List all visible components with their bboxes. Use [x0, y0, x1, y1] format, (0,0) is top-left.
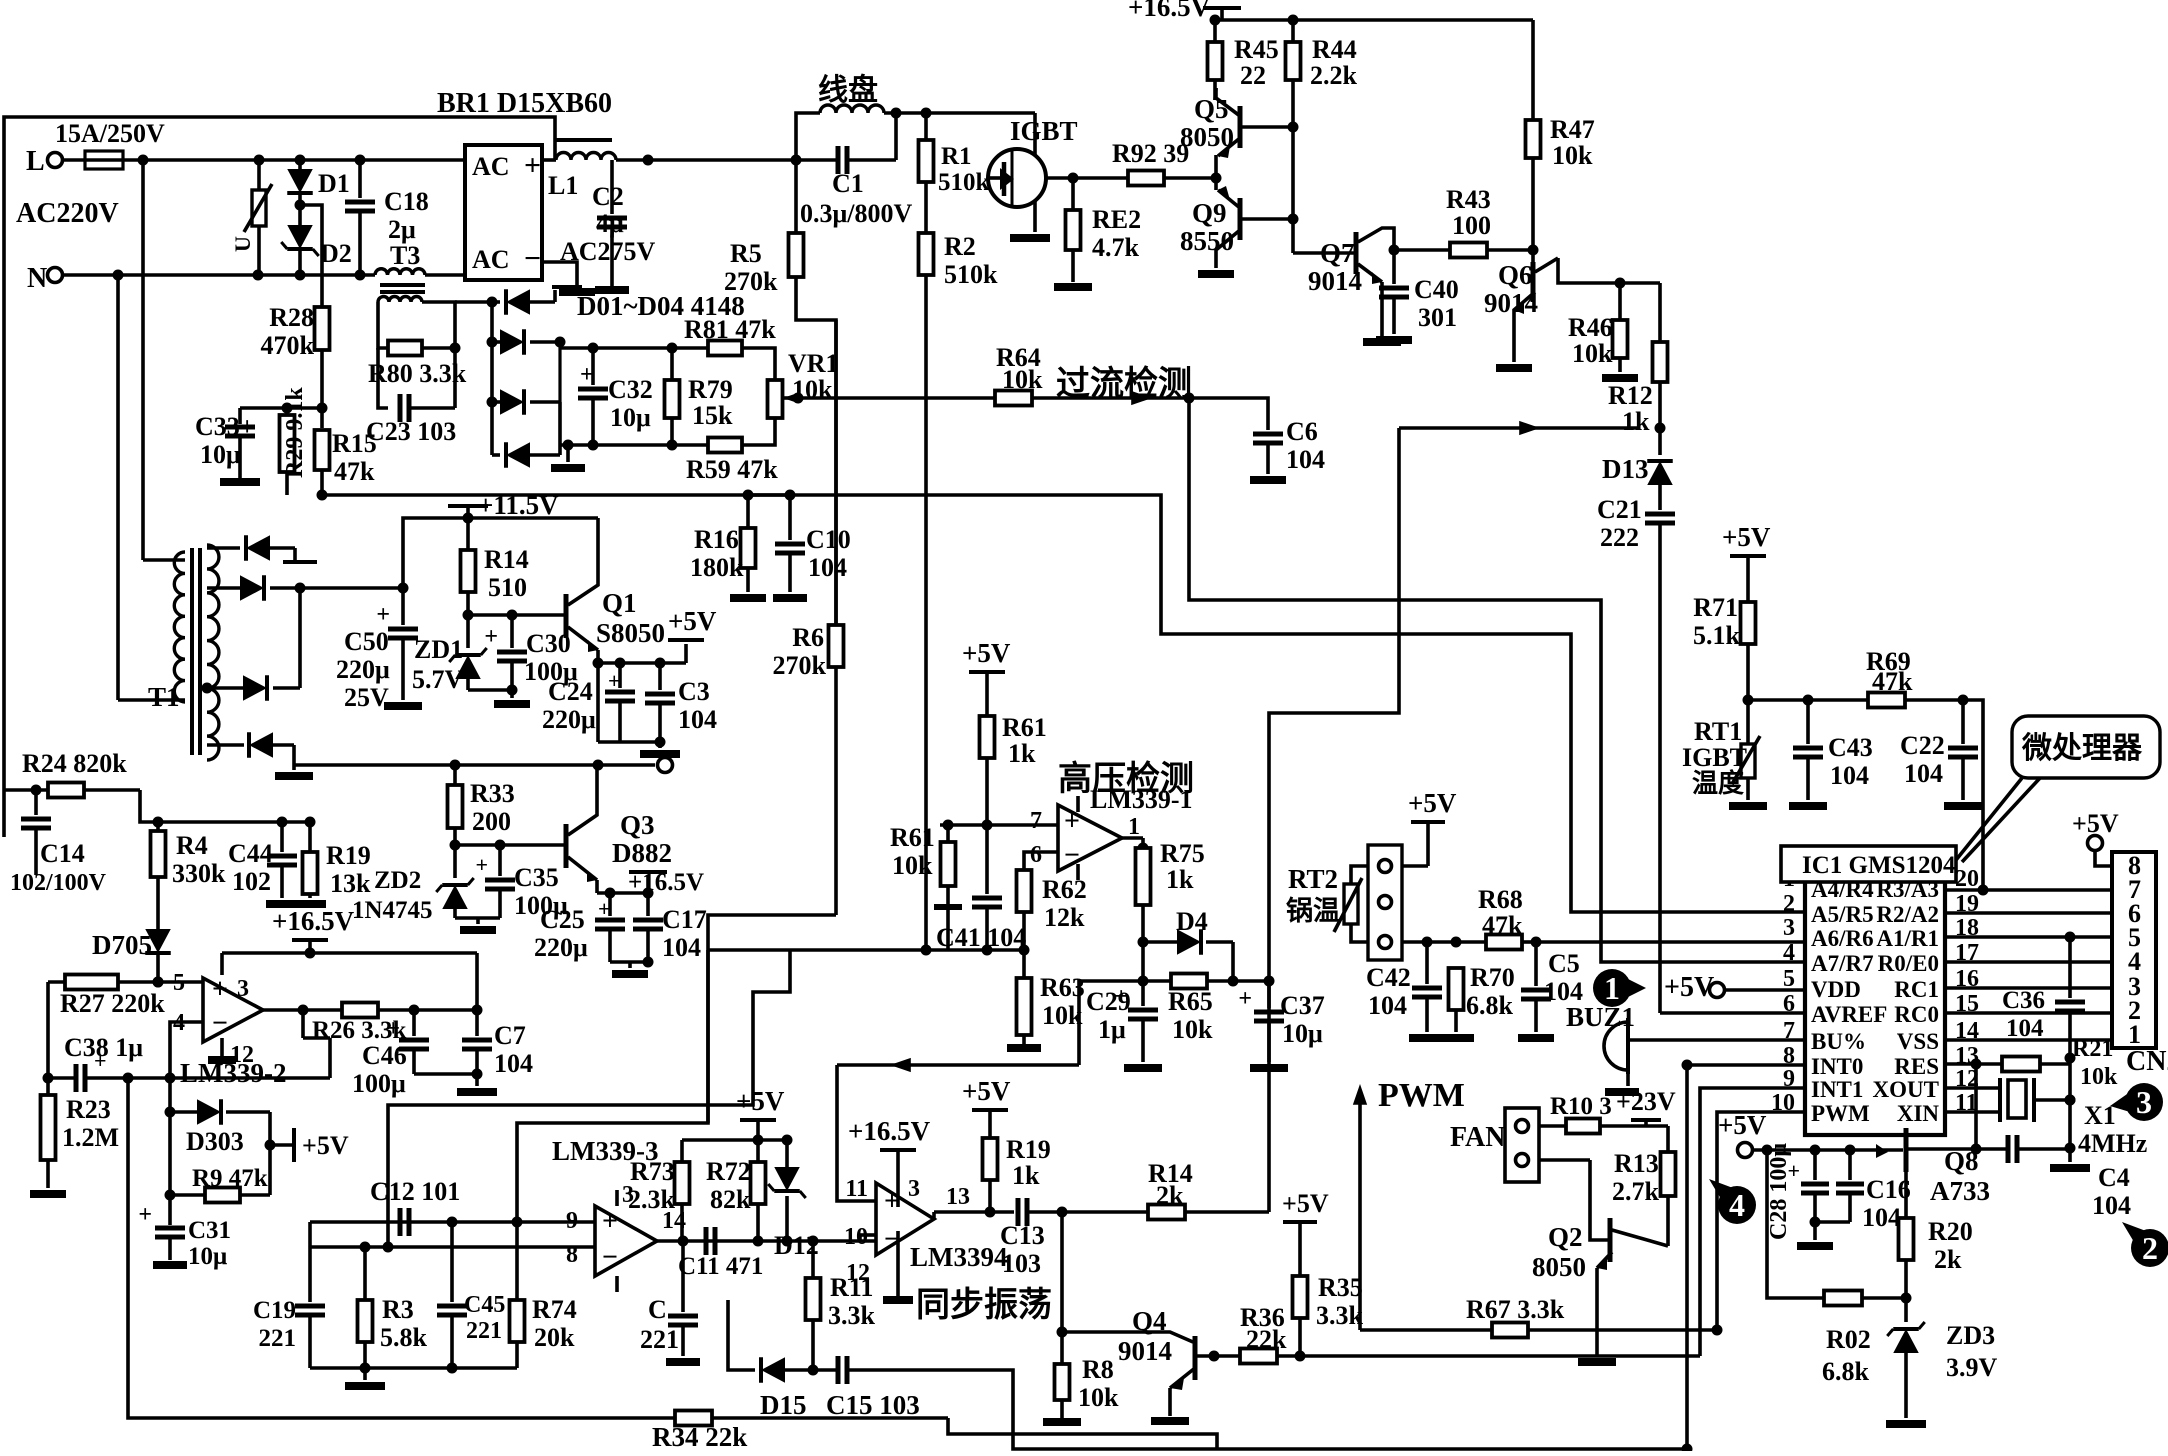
svg-text:C32: C32: [608, 375, 653, 404]
resistor R19 13k: [282, 817, 371, 905]
resistor R14 510: [461, 518, 529, 621]
wire lm2 out: [263, 1005, 342, 1039]
svg-text:+5V: +5V: [962, 1076, 1011, 1106]
capacitor C19 221: [253, 1247, 325, 1368]
svg-text:C2: C2: [592, 182, 624, 211]
resistor R10 3: [1539, 1093, 1668, 1134]
wire overcurrent down: [1189, 398, 1805, 962]
wire R69 to pin20: [1963, 700, 1983, 890]
svg-text:2: 2: [1783, 891, 1795, 917]
ground BR1 minus: [542, 262, 595, 292]
svg-text:C37: C37: [1280, 991, 1325, 1020]
power +23V: [1616, 1087, 1676, 1126]
varistor U: [230, 160, 272, 275]
svg-text:10k: 10k: [1552, 141, 1593, 170]
wire R15 down: [317, 470, 328, 501]
svg-text:T3: T3: [390, 241, 420, 270]
resistor R5 270k: [724, 160, 804, 296]
wire R36 right: [1300, 1354, 1700, 1358]
resistor R26 3.3k: [312, 1003, 483, 1045]
svg-text:+5V: +5V: [962, 638, 1011, 668]
svg-text:82k: 82k: [710, 1185, 751, 1214]
svg-text:10: 10: [1771, 1090, 1795, 1116]
power +16.5V Q3: [597, 872, 667, 899]
wire D-R28 link: [300, 205, 322, 307]
wire R80 loop: [378, 302, 461, 408]
resistor R67 3.3k: [1360, 1295, 1723, 1338]
svg-text:RE2: RE2: [1092, 205, 1141, 234]
thermistor RT1: [1682, 700, 1767, 806]
power +5V vdd: [1664, 972, 1805, 1003]
svg-text:47k: 47k: [1872, 667, 1913, 696]
resistor R15 47k: [315, 429, 377, 486]
svg-text:4MHz: 4MHz: [2078, 1129, 2147, 1158]
svg-text:104: 104: [1862, 1203, 1901, 1232]
transistor IGBT: [988, 116, 1078, 207]
svg-text:+5V: +5V: [668, 606, 717, 636]
svg-text:5: 5: [1783, 966, 1795, 992]
capacitor C6 104: [1189, 398, 1325, 480]
svg-text:C33+: C33+: [195, 412, 255, 441]
svg-text:IC1 GMS1204: IC1 GMS1204: [1802, 852, 1956, 879]
wire PWM pin: [1717, 1112, 1805, 1330]
svg-text:R19: R19: [326, 841, 371, 870]
svg-text:C43: C43: [1828, 733, 1873, 762]
svg-text:2.7k: 2.7k: [1612, 1177, 1660, 1206]
svg-text:R35: R35: [1318, 1273, 1363, 1302]
label R64 value: [0, 0, 1, 1]
svg-text:A7/R7: A7/R7: [1811, 951, 1874, 976]
svg-text:104: 104: [1904, 759, 1943, 788]
resistor R2 510k: [919, 182, 999, 289]
svg-text:C: C: [648, 1295, 667, 1324]
wire ic-cn2 p18: [1945, 932, 2112, 943]
svg-text:1k: 1k: [1622, 407, 1650, 436]
svg-text:FAN: FAN: [1450, 1122, 1505, 1153]
svg-text:C15 103: C15 103: [826, 1390, 920, 1420]
svg-text:ZD2: ZD2: [374, 867, 421, 894]
capacitor C38 1u: [48, 982, 330, 1092]
svg-text:6: 6: [1783, 991, 1795, 1017]
svg-text:线盘: 线盘: [818, 73, 878, 107]
wire sync feed Q: [517, 915, 836, 1222]
label R64 10k: [0, 0, 1, 1]
svg-text:C22: C22: [1900, 731, 1945, 760]
svg-text:同步振荡: 同步振荡: [916, 1286, 1052, 1324]
svg-text:R46: R46: [1568, 313, 1613, 342]
ground C28: [1797, 1222, 1833, 1246]
wire rt2 out: [1402, 937, 1486, 948]
label R69 value: [0, 0, 1, 1]
svg-text:PWM: PWM: [1811, 1101, 1870, 1126]
rectifier BR1: [437, 88, 612, 280]
resistor R68 47k: [1478, 885, 1805, 950]
svg-text:104: 104: [1544, 977, 1583, 1006]
wire 11.5 rail: [403, 490, 598, 588]
svg-text:15A/250V: 15A/250V: [55, 119, 165, 148]
capacitor C29 1u: [1086, 981, 1162, 1068]
resistor R8 10k: [1043, 1332, 1119, 1422]
resistor R12 1k: [1608, 283, 1668, 436]
svg-text:R73: R73: [630, 1157, 675, 1186]
svg-text:+5V: +5V: [736, 1086, 785, 1116]
svg-text:C31: C31: [188, 1217, 231, 1244]
resistor R16 180k: [690, 495, 766, 598]
svg-text:R72: R72: [706, 1157, 751, 1186]
badge 1: [1593, 969, 1646, 1007]
svg-text:R71: R71: [1693, 593, 1738, 622]
svg-text:5.8k: 5.8k: [380, 1323, 428, 1352]
svg-text:C16: C16: [1866, 1175, 1911, 1204]
svg-text:102/100V: 102/100V: [10, 870, 107, 896]
wire rt1 row: [1748, 695, 1969, 706]
svg-text:10μ: 10μ: [610, 403, 651, 432]
wire L rail: [138, 155, 466, 166]
transistor Q4 9014: [1118, 1306, 1240, 1421]
svg-text:R74: R74: [532, 1295, 577, 1324]
svg-text:AC: AC: [472, 245, 510, 274]
svg-text:R27 220k: R27 220k: [60, 989, 165, 1018]
svg-text:4.7k: 4.7k: [1092, 233, 1140, 262]
svg-text:R92 39: R92 39: [1112, 139, 1189, 168]
svg-text:R33: R33: [470, 779, 515, 808]
svg-text:221: 221: [640, 1325, 679, 1354]
svg-text:+5V: +5V: [1664, 972, 1714, 1003]
ground ZD2 C35: [455, 918, 500, 930]
resistor R4 330k: [151, 822, 227, 888]
svg-text:IGBT: IGBT: [1682, 743, 1747, 772]
svg-text:微处理器: 微处理器: [2021, 732, 2143, 765]
svg-text:200: 200: [472, 807, 511, 836]
resistor R36 22k: [1240, 1303, 1306, 1364]
terminal L: [26, 146, 63, 177]
label R43 value: [0, 0, 1, 1]
diode D15: [728, 1300, 813, 1420]
svg-text:2.2k: 2.2k: [1310, 61, 1358, 90]
wire ic-cn2 p17: [1945, 960, 2112, 964]
fuse F1 15A/250V: [55, 119, 165, 169]
svg-text:C29: C29: [1086, 987, 1131, 1016]
svg-text:C11 471: C11 471: [678, 1253, 763, 1280]
label 过流检测: [1056, 364, 1192, 405]
wire PWM stub: [1353, 1077, 1465, 1330]
svg-text:Q7: Q7: [1320, 238, 1355, 268]
capacitor C31 10u: [138, 1202, 231, 1270]
capacitor C12 101: [370, 1177, 460, 1236]
svg-text:+5V: +5V: [1282, 1189, 1329, 1218]
wire lm3 minus line: [310, 1242, 595, 1253]
wire N rail: [64, 270, 375, 281]
svg-text:D15: D15: [760, 1390, 807, 1420]
svg-text:1N4745: 1N4745: [352, 897, 433, 924]
svg-text:3: 3: [908, 1176, 920, 1202]
resistor R11 3.3k: [806, 1241, 876, 1376]
svg-text:2k: 2k: [1156, 1181, 1184, 1210]
svg-text:180k: 180k: [690, 553, 744, 582]
svg-text:10k: 10k: [1172, 1015, 1213, 1044]
svg-text:9014: 9014: [1308, 266, 1362, 296]
wire bridge top row: [560, 343, 708, 354]
svg-text:7: 7: [1783, 1018, 1795, 1044]
svg-text:47k: 47k: [1482, 911, 1523, 940]
diode D4: [1143, 907, 1239, 987]
svg-text:6.8k: 6.8k: [1822, 1357, 1870, 1386]
resistor R81 47k: [684, 315, 776, 356]
svg-text:C10: C10: [806, 525, 851, 554]
power +5V rt1: [1722, 522, 1771, 602]
svg-text:R1: R1: [941, 143, 972, 170]
wire W divider node: [708, 945, 1024, 956]
resistor R35 3.3k: [1293, 1273, 1364, 1356]
power +16.5V top: [1128, 0, 1241, 22]
diode D-T1-d: [207, 732, 313, 776]
svg-text:+5V: +5V: [1722, 522, 1771, 552]
wire lm2 top rail: [222, 948, 477, 976]
svg-text:3: 3: [1783, 915, 1795, 941]
resistor R75 1k: [1136, 839, 1205, 948]
svg-text:7: 7: [1030, 808, 1042, 834]
ground osc: [345, 1368, 385, 1386]
svg-text:R23: R23: [66, 1095, 111, 1124]
wire res line: [1945, 1059, 2002, 1070]
wire IGBT top: [926, 113, 1035, 147]
svg-text:C5: C5: [1548, 949, 1580, 978]
svg-text:D13: D13: [1602, 454, 1649, 484]
svg-text:20: 20: [1955, 866, 1979, 892]
svg-text:1: 1: [2128, 1020, 2141, 1049]
svg-text:C25: C25: [540, 905, 585, 934]
svg-text:−: −: [524, 242, 541, 275]
wire R2 down HV divider: [924, 275, 928, 950]
power +5V q8: [1718, 1110, 1872, 1158]
svg-text:10k: 10k: [1002, 365, 1043, 394]
svg-text:PWM: PWM: [1378, 1077, 1465, 1114]
svg-text:1μ: 1μ: [1098, 1015, 1126, 1044]
wire osc bottom: [310, 1363, 517, 1374]
capacitor C45 221: [437, 1222, 505, 1368]
resistor R21 10k: [2002, 1036, 2118, 1090]
transistor Q5 8050: [1180, 88, 1293, 178]
svg-text:R5: R5: [730, 239, 762, 268]
diode D705: [92, 877, 171, 988]
svg-text:104: 104: [2092, 1191, 2131, 1220]
svg-text:330k: 330k: [172, 859, 226, 888]
wire lm2 minus: [165, 1022, 204, 1084]
diode D-T1-b: [207, 575, 409, 601]
wire c36 column: [2050, 1058, 2090, 1168]
svg-text:+5V: +5V: [302, 1131, 349, 1160]
svg-text:470k: 470k: [261, 331, 315, 360]
op-amp LM3394: [844, 1176, 1008, 1300]
svg-text:104: 104: [808, 553, 847, 582]
svg-text:AC220V: AC220V: [16, 198, 119, 229]
wire d303 column: [165, 1078, 176, 1225]
svg-text:+: +: [1238, 986, 1252, 1012]
diode D01: [492, 289, 555, 315]
capacitor C10 104: [760, 490, 851, 599]
svg-text:2μ: 2μ: [388, 215, 416, 244]
svg-text:+5V: +5V: [1718, 1110, 1767, 1140]
power +5V Q1: [598, 606, 717, 663]
svg-text:10k: 10k: [1042, 1001, 1083, 1030]
connector FAN: [1450, 1108, 1539, 1182]
resistor R27 220k: [48, 975, 203, 1019]
svg-text:104: 104: [1830, 761, 1869, 790]
svg-text:C44: C44: [228, 839, 273, 868]
resistor R59 47k: [686, 438, 778, 485]
svg-text:12k: 12k: [1044, 903, 1085, 932]
ground bridge: [551, 445, 585, 468]
power +5V cn2: [2072, 809, 2119, 866]
capacitor C46 100u: [352, 1010, 429, 1098]
pot VR1 10k: [742, 348, 839, 445]
ground C46 C7: [414, 1069, 497, 1093]
svg-text:R45: R45: [1234, 35, 1279, 64]
svg-text:L1: L1: [548, 171, 578, 200]
label bubble 微处理器: [1956, 716, 2160, 862]
svg-text:C14: C14: [40, 839, 85, 868]
svg-text:6.8k: 6.8k: [1466, 991, 1514, 1020]
svg-text:+: +: [484, 624, 498, 650]
svg-text:RC1: RC1: [1894, 977, 1939, 1002]
wire mid bus: [294, 758, 673, 773]
diode D02: [492, 329, 560, 355]
svg-text:R80 3.3k: R80 3.3k: [368, 359, 467, 388]
svg-text:+: +: [884, 1186, 900, 1217]
capacitor C7 104: [462, 1010, 533, 1078]
wire r73 top rail: [682, 1135, 793, 1163]
wire lm2 rail up: [475, 953, 479, 1010]
svg-text:103: 103: [1002, 1249, 1041, 1278]
svg-text:+23V: +23V: [1616, 1087, 1676, 1116]
resistor R6 270k: [773, 320, 844, 915]
svg-text:C23 103: C23 103: [366, 417, 456, 446]
resistor R63 10k: [1007, 950, 1085, 1048]
capacitor C3 104: [645, 658, 717, 743]
diode D1: [287, 160, 350, 211]
svg-text:R79: R79: [688, 375, 733, 404]
resistor R20 2k: [1899, 1217, 1973, 1304]
svg-text:Q6: Q6: [1498, 260, 1533, 290]
svg-text:3.9V: 3.9V: [1946, 1353, 1998, 1382]
resistor R74 20k: [510, 1222, 577, 1368]
capacitor C43 104: [1789, 700, 1873, 806]
diode D04: [492, 442, 560, 468]
svg-text:1: 1: [1604, 970, 1620, 1006]
svg-text:510k: 510k: [938, 169, 990, 196]
svg-text:C4: C4: [2098, 1163, 2130, 1192]
svg-text:VDD: VDD: [1811, 977, 1861, 1002]
wire lm4 minus: [860, 1235, 876, 1241]
wire q8 res: [1974, 1064, 1978, 1149]
svg-text:270k: 270k: [724, 267, 778, 296]
svg-text:INT0: INT0: [1811, 1054, 1863, 1079]
svg-text:Q3: Q3: [620, 810, 655, 840]
zener ZD2 1N4745: [352, 845, 474, 924]
capacitor C16 104: [1815, 1150, 1911, 1232]
svg-text:9014: 9014: [1118, 1336, 1172, 1366]
svg-text:R10 3: R10 3: [1550, 1093, 1612, 1120]
label R36 22k: [1246, 1325, 1287, 1354]
resistor R65 10k: [1168, 974, 1275, 1045]
svg-text:A733: A733: [1930, 1176, 1990, 1206]
svg-text:0.3μ/800V: 0.3μ/800V: [800, 199, 912, 228]
power +5V lm3: [736, 1086, 785, 1140]
svg-text:RT2: RT2: [1288, 864, 1338, 894]
label R69 value fix: [1872, 667, 1913, 696]
ground IGBT emitter: [1010, 200, 1050, 238]
wire lm3 plus line: [310, 1217, 595, 1228]
diode D03: [492, 389, 560, 415]
transistor Q3 D882: [455, 765, 672, 893]
label pin14: [0, 0, 1, 1]
label R14 2k: [1148, 1159, 1193, 1210]
wire N drop: [116, 275, 120, 700]
svg-text:ZD1: ZD1: [414, 635, 463, 664]
svg-text:510: 510: [488, 573, 527, 602]
wire ic-cn2 p14: [1945, 1038, 2112, 1042]
diode D12: [768, 1140, 819, 1260]
capacitor C42 104: [1366, 942, 1445, 1038]
badge 4: [1709, 1179, 1756, 1224]
resistor R23 1.2M: [30, 1073, 119, 1195]
svg-text:4μ: 4μ: [596, 209, 624, 238]
svg-text:Q1: Q1: [602, 588, 637, 618]
capacitor C11 471: [678, 1227, 763, 1280]
resistor R02 6.8k: [1767, 1150, 1906, 1386]
resistor R1 510k: [919, 113, 990, 196]
svg-text:10μ: 10μ: [188, 1243, 227, 1270]
svg-text:R61: R61: [890, 823, 935, 852]
wire 16.5 rail: [1210, 15, 1534, 26]
svg-text:10k: 10k: [892, 851, 933, 880]
resistor R34 22k: [652, 1411, 747, 1453]
svg-text:C50: C50: [344, 627, 389, 656]
transistor Q7 9014: [1293, 228, 1401, 342]
capacitor C30 100u: [468, 610, 578, 691]
wire Q7 collector: [1389, 245, 1451, 256]
resistor R61 10k: [890, 823, 962, 950]
label D01~D04: [577, 291, 745, 321]
wire c38 to lm2: [328, 1038, 332, 1078]
svg-text:222: 222: [1600, 523, 1639, 552]
svg-text:8550: 8550: [1180, 226, 1234, 256]
svg-text:12: 12: [846, 1260, 870, 1286]
wire ic-cn2 p15: [1945, 1011, 2112, 1015]
svg-text:10μ: 10μ: [200, 440, 241, 469]
svg-text:CN2: CN2: [2126, 1046, 2168, 1077]
svg-text:13: 13: [946, 1184, 970, 1210]
svg-text:270k: 270k: [773, 651, 827, 680]
svg-text:+16.5V: +16.5V: [272, 906, 355, 936]
svg-text:D882: D882: [612, 838, 672, 868]
resistor R72 82k: [706, 1140, 766, 1241]
svg-text:4: 4: [1783, 940, 1795, 966]
svg-text:C46: C46: [362, 1041, 407, 1070]
resistor R69 47k: [1866, 647, 1911, 708]
resistor R13 2.7k: [1612, 1126, 1676, 1206]
svg-text:+: +: [138, 1202, 152, 1228]
svg-text:+: +: [376, 602, 390, 628]
svg-text:2: 2: [2142, 1230, 2158, 1266]
svg-text:RT1: RT1: [1694, 717, 1742, 746]
resistor R79 15k: [665, 348, 734, 445]
svg-text:10μ: 10μ: [1282, 1019, 1323, 1048]
op-amp LM339-2: [173, 970, 286, 1088]
svg-text:C41 104: C41 104: [936, 923, 1026, 952]
coil pan 线盘: [796, 73, 932, 160]
svg-text:A5/R5: A5/R5: [1811, 902, 1874, 927]
